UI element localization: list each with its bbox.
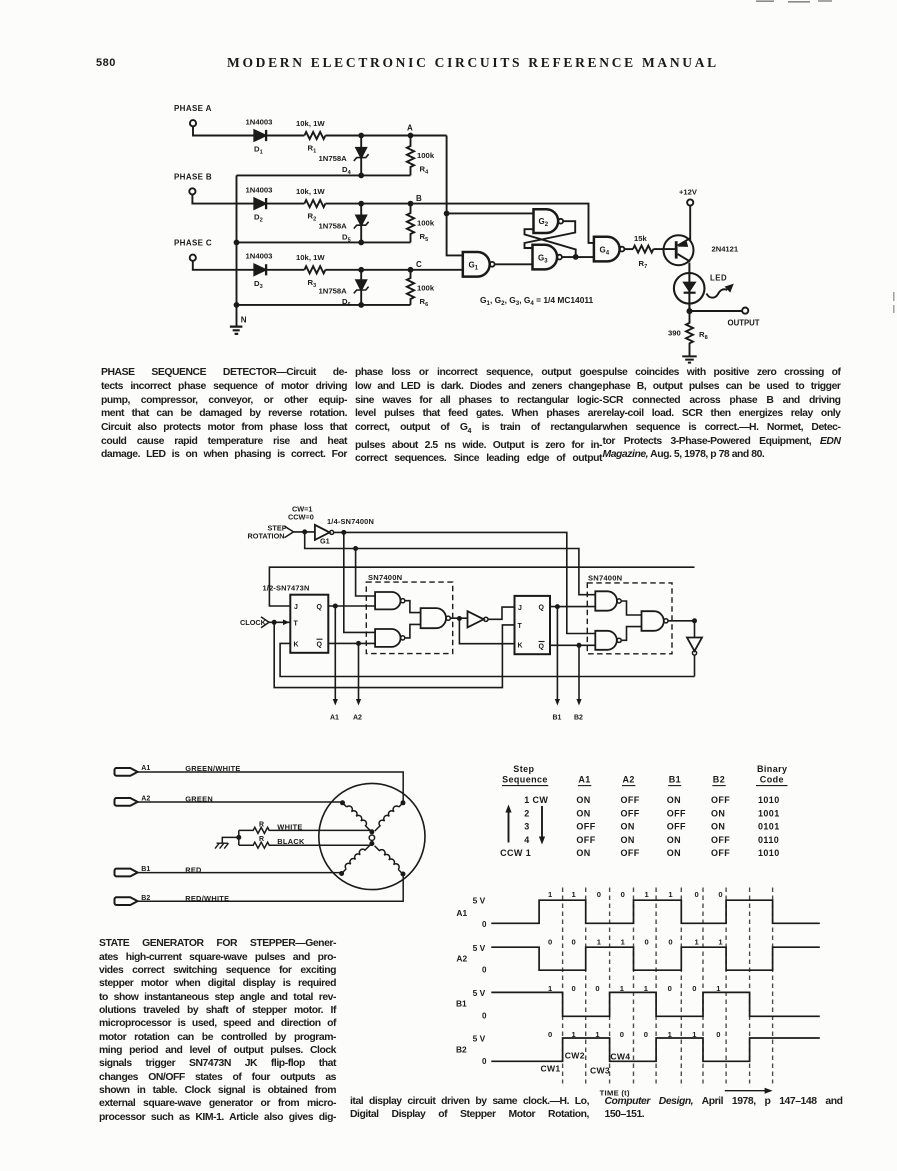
svg-text:R6: R6 [420, 297, 429, 308]
svg-text:PHASE B: PHASE B [174, 173, 212, 182]
box2 dashed [587, 583, 672, 654]
gate box1 output NAND [421, 608, 446, 628]
svg-text:ON: ON [711, 822, 725, 832]
svg-text:CW4: CW4 [610, 1052, 630, 1062]
scan artifact right edge [893, 292, 895, 313]
svg-text:OFF: OFF [576, 835, 595, 845]
wire +12V to emitter [689, 206, 691, 241]
svg-text:D4: D4 [342, 165, 352, 176]
svg-text:Q: Q [539, 644, 545, 651]
svg-text:ON: ON [621, 822, 635, 832]
flip-flop FF2 SN7473N [515, 596, 551, 654]
svg-text:CW2: CW2 [565, 1051, 585, 1061]
svg-text:A2: A2 [353, 714, 362, 721]
svg-text:Code: Code [760, 774, 784, 784]
wire h2 down to box1 upper gate [356, 549, 376, 597]
svg-text:CW3: CW3 [590, 1066, 610, 1076]
svg-text:OFF: OFF [667, 822, 686, 832]
svg-text:G1: G1 [320, 537, 330, 546]
wire FF2 Q to box2 [550, 606, 595, 608]
svg-text:R8: R8 [699, 330, 708, 341]
svg-text:Binary: Binary [757, 764, 787, 774]
text block 1 column 1 [101, 366, 347, 462]
connector A2 [115, 798, 138, 806]
svg-text:3: 3 [524, 822, 529, 832]
wire A bus down [447, 136, 463, 256]
svg-text:G3: G3 [538, 253, 548, 264]
wire box1 out [450, 617, 467, 619]
wire [266, 203, 304, 205]
svg-text:1001: 1001 [758, 808, 780, 818]
wire clock rail to FF2 T [274, 622, 514, 687]
svg-text:D3: D3 [254, 279, 263, 290]
wire J feedback rail [269, 567, 694, 606]
svg-text:100k: 100k [417, 151, 435, 160]
gate box1 lower NAND [375, 629, 400, 647]
svg-text:10k, 1W: 10k, 1W [296, 119, 325, 128]
svg-text:ON: ON [576, 808, 590, 818]
wire phase C [193, 261, 254, 270]
svg-text:OUTPUT: OUTPUT [728, 319, 760, 328]
ground N [230, 327, 243, 334]
resistor R8 390 [686, 303, 693, 356]
svg-text:ON: ON [667, 848, 681, 858]
node C [408, 267, 414, 273]
wire R junction to ground [238, 830, 240, 845]
wire box1 upper to output NAND [405, 601, 421, 613]
svg-text:R5: R5 [420, 232, 429, 243]
wire to node A [325, 135, 446, 137]
svg-text:5 V: 5 V [473, 1034, 486, 1044]
diode D3 [254, 265, 265, 276]
wire FF1 K feedback [280, 643, 694, 676]
wire h1 down to box1 lower gate [344, 532, 375, 632]
svg-text:0: 0 [645, 938, 649, 947]
wire G3 out to G4 and G2 in (latch cross) [525, 229, 594, 257]
svg-text:0: 0 [572, 938, 576, 947]
box1 dashed [366, 582, 452, 654]
svg-text:0110: 0110 [758, 835, 779, 845]
svg-text:A1: A1 [456, 908, 467, 918]
chassis ground [215, 843, 229, 848]
svg-text:ON: ON [621, 835, 635, 845]
svg-text:1N4003: 1N4003 [246, 185, 273, 194]
svg-text:2: 2 [524, 808, 529, 818]
wire inverter out to FF2 J [488, 607, 515, 619]
svg-text:1 CW: 1 CW [524, 795, 548, 805]
svg-text:0: 0 [482, 920, 487, 929]
wire A2 output [358, 643, 360, 700]
inverter G1 (1/4 SN7400N) [315, 525, 330, 540]
wire B1 output [556, 607, 558, 701]
svg-text:K: K [518, 642, 523, 649]
svg-text:1N4003: 1N4003 [246, 117, 273, 126]
svg-text:R4: R4 [420, 165, 430, 176]
wire clock to T [269, 621, 290, 623]
svg-text:1: 1 [597, 938, 602, 947]
inverter right (down) [687, 638, 702, 652]
svg-text:4: 4 [524, 835, 529, 845]
svg-text:A1: A1 [578, 774, 590, 784]
wire [266, 135, 304, 137]
svg-text:B1: B1 [669, 774, 681, 784]
svg-text:OFF: OFF [621, 848, 640, 858]
svg-text:0: 0 [597, 890, 601, 899]
svg-text:R7: R7 [639, 259, 648, 270]
svg-text:1: 1 [645, 890, 650, 899]
svg-text:T: T [518, 623, 523, 630]
resistor R1 [304, 132, 325, 139]
svg-text:0: 0 [620, 1030, 624, 1039]
wire G4 out to R7 [624, 248, 633, 250]
node motor center bottom [369, 841, 374, 846]
svg-text:0: 0 [548, 1030, 552, 1039]
svg-text:G4: G4 [600, 245, 610, 256]
ground below R8 [682, 356, 696, 362]
svg-text:ON: ON [667, 835, 681, 845]
svg-text:LED: LED [710, 274, 727, 283]
svg-text:OFF: OFF [621, 808, 640, 818]
svg-text:Q: Q [317, 604, 323, 611]
svg-text:ON: ON [667, 795, 681, 805]
svg-text:0: 0 [548, 938, 552, 947]
text block 2 column 1 [99, 937, 336, 1124]
page title [227, 56, 715, 70]
svg-text:OFF: OFF [711, 795, 730, 805]
wire box2 lower to output NAND [621, 627, 641, 641]
svg-text:0: 0 [692, 984, 696, 993]
svg-text:0: 0 [644, 1030, 648, 1039]
resistor R6 [407, 270, 414, 305]
svg-text:B: B [416, 194, 422, 203]
wire FF2 Qbar to box2 [550, 644, 595, 646]
svg-text:1010: 1010 [758, 848, 780, 858]
junction [358, 267, 364, 273]
svg-text:1: 1 [572, 890, 577, 899]
wire [266, 269, 304, 271]
svg-text:G1, G2, G3, G4 = 1/4 MC14011: G1, G2, G3, G4 = 1/4 MC14011 [480, 295, 594, 307]
terminal PHASE C [190, 255, 196, 261]
svg-text:1N758A: 1N758A [319, 222, 348, 231]
wire B2 output [578, 645, 580, 700]
wire inverter out to K rail [694, 655, 696, 676]
diode D1 [254, 130, 265, 141]
gate box1 upper NAND [375, 592, 400, 609]
resistor R5 [407, 204, 414, 243]
svg-text:OFF: OFF [711, 835, 730, 845]
gate box2 output NAND [642, 611, 664, 631]
svg-text:R3: R3 [308, 278, 317, 289]
node motor center top [369, 829, 374, 834]
svg-text:0: 0 [482, 1011, 487, 1020]
svg-text:10k, 1W: 10k, 1W [296, 187, 325, 196]
wire FF1 Qbar to box1 [328, 642, 375, 644]
svg-text:B2: B2 [713, 774, 725, 784]
inverter mid [468, 611, 484, 627]
svg-text:2N4121: 2N4121 [712, 244, 739, 253]
svg-text:0: 0 [668, 938, 672, 947]
svg-text:T: T [294, 621, 299, 628]
svg-text:B2: B2 [574, 714, 583, 721]
svg-text:PHASE A: PHASE A [174, 104, 212, 113]
svg-text:C: C [416, 260, 422, 269]
connector A1 [115, 768, 138, 776]
svg-text:D2: D2 [254, 213, 263, 224]
svg-text:5 V: 5 V [473, 943, 486, 953]
svg-text:5 V: 5 V [473, 988, 486, 998]
svg-text:0: 0 [718, 890, 722, 899]
resistor R7 [633, 246, 653, 253]
svg-text:OFF: OFF [711, 848, 730, 858]
wire bottom rail A [237, 174, 411, 176]
svg-text:1N4003: 1N4003 [246, 252, 273, 261]
wire G1 out along h1 to box2 lower gate [334, 532, 596, 633]
svg-text:SN7400N: SN7400N [588, 574, 622, 583]
wire R7 to base [653, 248, 675, 250]
svg-text:10k, 1W: 10k, 1W [296, 253, 325, 262]
svg-text:390: 390 [668, 329, 681, 338]
wire A to G2 input [447, 212, 534, 214]
junction [358, 133, 364, 139]
svg-text:A1: A1 [141, 765, 150, 772]
svg-text:0: 0 [572, 984, 576, 993]
svg-text:PHASE C: PHASE C [174, 238, 212, 247]
wire to OUTPUT terminal [690, 310, 743, 312]
svg-text:1: 1 [668, 890, 673, 899]
motor stator circle [319, 783, 425, 889]
wire A1 output [334, 606, 336, 701]
wire phase B [192, 195, 253, 204]
text block 1 column 2 [355, 366, 602, 466]
svg-text:+12V: +12V [679, 187, 698, 196]
svg-text:OFF: OFF [576, 822, 595, 832]
connector B2 [115, 897, 138, 905]
node output junction [687, 308, 693, 314]
svg-text:0101: 0101 [758, 822, 780, 832]
svg-text:A1: A1 [330, 714, 339, 721]
op-amp G4 NAND gate [594, 237, 620, 262]
wire phase A [193, 126, 254, 135]
svg-text:CCW 1: CCW 1 [500, 848, 531, 858]
svg-text:1N758A: 1N758A [319, 286, 348, 295]
svg-text:CW1: CW1 [541, 1064, 561, 1074]
svg-text:D1: D1 [254, 145, 263, 156]
svg-text:1010: 1010 [758, 795, 780, 805]
svg-text:Q: Q [317, 641, 323, 648]
diode D2 [254, 198, 265, 209]
svg-text:A: A [407, 124, 413, 133]
winding A upper-left coil [343, 803, 371, 831]
svg-text:D6: D6 [342, 297, 351, 308]
svg-text:1: 1 [718, 938, 723, 947]
svg-text:OFF: OFF [667, 808, 686, 818]
LED D7 [674, 273, 705, 304]
page number 580 [96, 58, 116, 69]
svg-text:1N758A: 1N758A [319, 154, 348, 163]
arrow CW down [541, 806, 543, 839]
svg-text:K: K [294, 642, 299, 649]
svg-text:0: 0 [668, 984, 672, 993]
wire FF1 Q to box1 [328, 605, 375, 607]
terminal PHASE A [190, 120, 196, 126]
svg-text:Step: Step [513, 764, 534, 774]
wire bottom rail C [237, 304, 411, 306]
svg-text:R1: R1 [308, 144, 317, 155]
svg-text:1/4-SN7400N: 1/4-SN7400N [327, 517, 374, 526]
svg-text:1: 1 [548, 890, 553, 899]
svg-text:15k: 15k [634, 234, 648, 243]
svg-text:100k: 100k [417, 284, 435, 293]
wire box2 upper to output NAND [621, 601, 641, 615]
wire bottom rail B [237, 241, 411, 243]
junction h2 takeoff [353, 546, 358, 551]
svg-text:SN7400N: SN7400N [368, 573, 402, 582]
wire right bus down to inverter [694, 621, 696, 638]
wire to FF2 K [459, 619, 514, 644]
scan artifacts top edge [756, 0, 832, 3]
zener D5 [360, 204, 362, 243]
wire box2 out to right bus [668, 620, 695, 622]
zener D4 [360, 136, 362, 176]
wire G1 out to G3 in [495, 263, 533, 265]
wire neutral bus [236, 175, 238, 326]
op-amp G3 NAND gate [533, 245, 558, 270]
text block 2 column 3 [605, 1096, 843, 1122]
motor center terminal [369, 835, 374, 840]
op-amp G1 NAND gate [463, 252, 490, 277]
node A [408, 133, 414, 139]
zener D6 [360, 270, 362, 305]
wire step rotation [294, 531, 315, 533]
flip-flop FF1 SN7473N [290, 595, 328, 653]
svg-text:Q: Q [539, 605, 545, 612]
svg-text:G1: G1 [469, 261, 479, 272]
svg-text:0: 0 [716, 1030, 720, 1039]
junction A to G2 [444, 211, 450, 217]
svg-text:A2: A2 [456, 953, 467, 963]
svg-text:1: 1 [695, 938, 700, 947]
junction [358, 201, 364, 207]
svg-text:ON: ON [711, 808, 725, 818]
gate box2 lower NAND [595, 631, 617, 650]
svg-text:B1: B1 [456, 999, 467, 1009]
resistor R3 [304, 266, 325, 273]
junction step [302, 529, 307, 534]
text block 2 column 2 [350, 1096, 589, 1122]
LED arrow squiggle [707, 289, 728, 297]
wire box1 lower to output NAND [405, 624, 421, 638]
svg-text:OFF: OFF [621, 795, 640, 805]
svg-text:ROTATION: ROTATION [248, 531, 285, 540]
timing grid dashed lines [563, 888, 773, 1084]
junction h1 takeoff [341, 530, 346, 535]
svg-text:G2: G2 [539, 217, 549, 228]
svg-text:0: 0 [595, 984, 599, 993]
svg-text:100k: 100k [417, 219, 435, 228]
svg-text:N: N [241, 316, 247, 325]
svg-text:B1: B1 [553, 714, 562, 721]
wire G2 out to G3 in (latch cross) [525, 221, 576, 248]
svg-text:1: 1 [621, 938, 626, 947]
svg-text:0: 0 [482, 965, 487, 974]
svg-text:J: J [518, 605, 522, 612]
transistor Q1 2N4121 [664, 235, 694, 265]
op-amp G2 NAND gate [534, 209, 559, 233]
svg-text:ON: ON [576, 848, 590, 858]
svg-text:0: 0 [695, 890, 699, 899]
text block 1 column 3 [603, 366, 841, 462]
svg-text:5 V: 5 V [473, 896, 486, 906]
wire to node B and G4 [325, 204, 594, 243]
svg-text:B2: B2 [456, 1044, 467, 1054]
winding B lower-left coil [342, 845, 370, 873]
resistor R4 [407, 136, 414, 176]
connector B1 [115, 869, 138, 877]
gate box2 upper NAND [595, 591, 617, 610]
winding B lower-right coil [375, 846, 403, 874]
svg-text:R2: R2 [308, 212, 317, 223]
resistor R2 [304, 200, 325, 207]
svg-text:ON: ON [576, 795, 590, 805]
svg-text:TIME (t): TIME (t) [600, 1088, 630, 1097]
arrow CCW up [508, 810, 510, 843]
svg-text:0: 0 [621, 890, 625, 899]
time direction arrow [725, 1090, 767, 1092]
wire to node C and G1 input [325, 269, 462, 271]
wire h2 from step junction to box2 upper gate [305, 532, 596, 595]
svg-text:A2: A2 [623, 774, 635, 784]
svg-text:J: J [294, 604, 298, 611]
svg-text:0: 0 [482, 1057, 487, 1066]
svg-text:1/2-SN7473N: 1/2-SN7473N [263, 584, 310, 593]
terminal PHASE B [189, 188, 195, 194]
winding A upper-right coil [375, 803, 403, 831]
svg-text:Sequence: Sequence [502, 774, 548, 784]
node B [408, 201, 414, 207]
svg-text:CCW=0: CCW=0 [288, 512, 314, 521]
